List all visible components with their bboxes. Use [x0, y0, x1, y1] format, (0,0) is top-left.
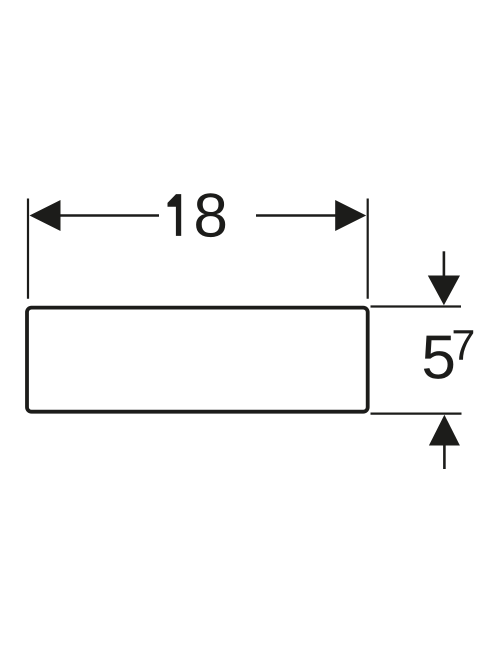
extension line bottom of dimension 5.7: [371, 413, 462, 415]
arrowhead top of dimension 5.7: [428, 276, 460, 306]
dimension label superscript 7: [454, 330, 474, 360]
dimension label 5: [424, 336, 453, 379]
dimension line 18 right segment: [256, 214, 336, 217]
extension line right of dimension 18: [367, 199, 369, 299]
arrow tail top of dimension 5.7: [443, 251, 446, 277]
dimension line 18 left segment: [60, 214, 160, 217]
extension line left of dimension 18: [27, 199, 29, 299]
arrow tail bottom of dimension 5.7: [443, 445, 446, 470]
arrowhead right of dimension 18: [335, 200, 366, 231]
dimension label 18 digit 8: [196, 193, 225, 237]
rectangle body outline: [27, 308, 368, 412]
extension line top of dimension 5.7: [371, 305, 462, 307]
arrowhead bottom of dimension 5.7: [429, 415, 460, 446]
arrowhead left of dimension 18: [30, 200, 61, 231]
dimension label 18 digit 1: [168, 194, 182, 236]
